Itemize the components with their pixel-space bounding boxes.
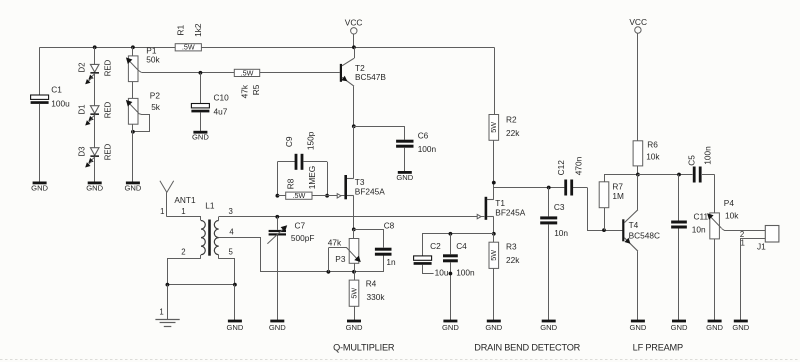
resistor R5 (234, 68, 261, 98)
potentiometer P4 (707, 175, 765, 322)
svg-text:1: 1 (181, 207, 185, 216)
capacitor C4 (443, 234, 467, 321)
ground C11 (672, 320, 686, 323)
ground C2/C4 (443, 320, 457, 323)
wire L1 pin5 (219, 259, 235, 285)
transistor T3 BF245A (337, 175, 385, 199)
wire R8 to T3 gate (312, 195, 344, 197)
wire P2 to ground (132, 124, 134, 183)
capacitor C10 (191, 73, 229, 131)
resistor R4 (349, 272, 385, 321)
capacitor C1 (31, 47, 71, 183)
node junction C11 tap (677, 173, 681, 177)
svg-text:150p: 150p (306, 131, 316, 150)
wire T2 emitter down (353, 86, 355, 126)
ground R3 (487, 320, 501, 323)
node junction LED chain / rail (93, 45, 97, 49)
svg-text:GND: GND (192, 133, 209, 142)
svg-text:L1: L1 (205, 200, 215, 210)
svg-text:GND: GND (442, 323, 459, 332)
svg-text:.5W: .5W (292, 191, 305, 200)
ground P2 (126, 182, 140, 185)
node junction pin2 tie (166, 283, 170, 287)
wire top supply rail right (201, 47, 494, 49)
wire T1 source down (493, 217, 495, 234)
svg-text:R3: R3 (506, 241, 517, 251)
resistor R7 (599, 175, 638, 231)
svg-text:GND: GND (269, 323, 286, 332)
node junction R4 tie (352, 270, 356, 274)
node junction C4 tap (449, 232, 453, 236)
wire T3 source down (353, 196, 355, 230)
svg-text:1MEG: 1MEG (307, 166, 317, 190)
svg-text:100u: 100u (51, 99, 70, 109)
svg-text:4: 4 (229, 227, 234, 236)
svg-text:GND: GND (31, 183, 48, 192)
svg-text:C9: C9 (284, 136, 294, 147)
svg-text:GND: GND (671, 323, 688, 332)
svg-text:C10: C10 (214, 92, 230, 102)
svg-text:GND: GND (732, 323, 749, 332)
svg-text:GND: GND (706, 323, 723, 332)
wire source rail to C2 (423, 234, 494, 256)
capacitor C9 (277, 131, 327, 170)
svg-text:BF245A: BF245A (495, 207, 525, 217)
wire R2 feed down (494, 47, 496, 114)
wire top supply rail left (40, 47, 176, 49)
svg-text:BC548C: BC548C (629, 231, 660, 241)
wire P1 to P2 (132, 82, 134, 99)
wire D1 to D3 (94, 115, 96, 148)
ground C10 (193, 131, 207, 134)
svg-text:C12: C12 (556, 160, 566, 176)
svg-text:C6: C6 (418, 130, 429, 140)
svg-text:R6: R6 (647, 140, 658, 150)
resistor R6 (633, 140, 660, 175)
resistor R3 (489, 234, 520, 321)
svg-text:T4: T4 (629, 220, 639, 230)
svg-text:ANT1: ANT1 (174, 195, 196, 205)
wire J1 pin1 to ground (741, 239, 766, 321)
antenna ANT1 (160, 181, 196, 217)
svg-text:RED: RED (104, 143, 113, 160)
svg-text:P2: P2 (150, 91, 161, 101)
svg-text:RED: RED (104, 59, 113, 76)
svg-text:R7: R7 (612, 181, 623, 191)
svg-text:R5: R5 (251, 84, 261, 95)
wire P1 wiper to R5 (142, 72, 235, 74)
wire pin5 to ground (234, 285, 236, 321)
svg-text:100n: 100n (418, 144, 437, 154)
wire L1 pin4 (219, 238, 384, 272)
wire C12 to T4 base (588, 188, 623, 231)
svg-text:R1: R1 (175, 25, 185, 36)
svg-text:D2: D2 (78, 63, 87, 73)
svg-text:C8: C8 (384, 221, 395, 231)
svg-text:10k: 10k (646, 152, 660, 162)
node junction R8/C9 right (325, 194, 329, 198)
wire rail to D2 (94, 47, 96, 64)
svg-text:C4: C4 (456, 241, 467, 251)
svg-text:R2: R2 (506, 114, 517, 124)
supply VCC (right) (629, 17, 647, 141)
resistor R2 (489, 114, 520, 140)
connector J1 (757, 226, 779, 252)
wire D3 to ground (94, 157, 96, 183)
wire rail to P1 (132, 47, 134, 56)
svg-text:4u7: 4u7 (214, 107, 228, 117)
svg-text:100n: 100n (703, 146, 713, 165)
svg-text:GND: GND (485, 323, 502, 332)
svg-text:1: 1 (159, 308, 163, 317)
svg-text:GND: GND (86, 183, 103, 192)
earth ground symbol (155, 320, 179, 327)
node junction P2 wiper tie (131, 130, 135, 134)
svg-text:C7: C7 (295, 220, 306, 230)
potentiometer P2 (126, 91, 161, 132)
svg-text:.5W: .5W (182, 43, 195, 52)
node junction T2 emitter / C6 / T3 drain (352, 124, 356, 128)
node junction T1 source / R3 (492, 232, 496, 236)
svg-text:D1: D1 (78, 105, 87, 115)
node junction C2/C4 bottom (449, 272, 453, 276)
svg-text:3: 3 (229, 207, 233, 216)
wire detector output rail (494, 187, 565, 189)
svg-text:Q-MULTIPLIER: Q-MULTIPLIER (333, 342, 395, 352)
LED D2 (78, 59, 113, 84)
wire bottom tie pin2-pin5 (167, 284, 235, 286)
svg-text:GND: GND (396, 173, 413, 182)
ground C7 (270, 320, 284, 323)
svg-text:330k: 330k (367, 292, 386, 302)
svg-text:5: 5 (229, 247, 234, 256)
ground P4 (708, 320, 722, 323)
wire R2 to T1 drain (493, 140, 495, 199)
capacitor C2 (414, 241, 451, 274)
svg-text:VCC: VCC (629, 17, 647, 27)
LED D1 (78, 101, 113, 125)
svg-text:470n: 470n (574, 156, 584, 175)
resistor R1 (175, 23, 203, 52)
wire L1 pin3 to T1 gate (219, 216, 485, 218)
svg-text:50k: 50k (146, 55, 160, 65)
node junction T3 source / C8 / P3 (352, 228, 356, 232)
svg-text:GND: GND (346, 323, 363, 332)
ground R4 (347, 320, 361, 323)
svg-text:GND: GND (629, 323, 646, 332)
svg-text:47k: 47k (328, 237, 342, 247)
wire D2 to D1 (94, 73, 96, 106)
svg-text:C2: C2 (430, 241, 441, 251)
svg-text:1M: 1M (612, 191, 624, 201)
wire collector rail to C5 (638, 174, 693, 176)
wire C9 left leg (277, 162, 279, 196)
svg-text:1: 1 (160, 207, 164, 216)
wire antenna to L1 pin1 (167, 216, 201, 218)
wire C9 right leg (327, 162, 329, 196)
svg-text:10n: 10n (554, 228, 568, 238)
svg-text:LF PREAMP: LF PREAMP (633, 342, 683, 352)
svg-text:5k: 5k (151, 102, 161, 112)
svg-text:10u: 10u (435, 267, 449, 277)
transistor T1 BF245A (477, 197, 526, 220)
svg-text:1k2: 1k2 (193, 23, 203, 37)
svg-text:DRAIN BEND DETECTOR: DRAIN BEND DETECTOR (474, 342, 580, 352)
label C4 value (455, 268, 475, 277)
wire P3 bottom (354, 263, 356, 272)
capacitor C5 (687, 146, 715, 183)
wire R5 to T2 base (260, 72, 340, 74)
svg-text:C11: C11 (694, 212, 709, 222)
svg-text:D3: D3 (78, 147, 87, 157)
svg-text:.5W: .5W (241, 68, 254, 77)
ground LED chain (88, 182, 102, 185)
svg-text:C5: C5 (687, 155, 697, 166)
wire T4 emitter to ground (637, 251, 639, 321)
capacitor C6 (354, 126, 437, 171)
svg-text:RED: RED (104, 101, 113, 118)
svg-text:BC547B: BC547B (355, 72, 386, 82)
svg-text:5W: 5W (489, 250, 498, 261)
svg-text:BF245A: BF245A (355, 187, 385, 197)
potentiometer P1 (126, 45, 161, 81)
variable capacitor C7 (267, 217, 314, 321)
svg-text:100n: 100n (456, 267, 475, 277)
wire L1 pin2 (168, 259, 201, 285)
sheet frame dashed edge (0, 359, 800, 361)
wire T2 emitter to T3 drain (353, 126, 355, 178)
node junction R7 / base (602, 228, 606, 232)
node junction R2 / T1 drain (492, 181, 496, 185)
svg-text:R8: R8 (286, 178, 296, 189)
capacitor C12 (556, 156, 587, 195)
svg-text:C3: C3 (554, 202, 565, 212)
node junction R6 / collector (636, 173, 640, 177)
svg-text:10k: 10k (725, 210, 739, 220)
svg-text:GND: GND (540, 323, 557, 332)
svg-text:1: 1 (741, 239, 745, 248)
svg-text:1n: 1n (386, 257, 396, 267)
svg-text:P3: P3 (335, 254, 346, 264)
svg-text:GND: GND (226, 323, 243, 332)
node junction C3 tap (547, 186, 551, 190)
svg-text:P4: P4 (724, 198, 735, 208)
svg-text:22k: 22k (506, 128, 520, 138)
node junction P1 / rail (131, 45, 135, 49)
ground J1 (734, 320, 748, 323)
node junction R8/C9 left (276, 194, 280, 198)
ground C1 (33, 182, 47, 185)
node junction C7 / tuned circuit (275, 215, 279, 219)
svg-text:5W: 5W (349, 288, 358, 299)
svg-text:GND: GND (124, 183, 141, 192)
inductor L1 transformer (201, 200, 219, 258)
ground C6 (398, 171, 412, 174)
supply VCC (left) (345, 17, 363, 47)
svg-text:22k: 22k (506, 255, 520, 265)
ground L1 pin5 (228, 320, 242, 323)
svg-text:500pF: 500pF (291, 233, 315, 243)
ground C3 (542, 320, 556, 323)
ground T4 (631, 320, 645, 323)
node junction pin5 tie (233, 283, 237, 287)
transistor T4 BC548C (622, 175, 660, 252)
capacitor C3 (540, 188, 568, 322)
transistor T2 BC547B (340, 47, 387, 86)
LED D3 (78, 143, 113, 167)
svg-text:R4: R4 (366, 278, 377, 288)
node junction VCC rail (352, 45, 356, 49)
potentiometer P3 (328, 229, 361, 271)
svg-text:5W: 5W (489, 122, 498, 133)
svg-text:2: 2 (181, 247, 185, 256)
svg-text:C1: C1 (51, 84, 62, 94)
svg-text:10n: 10n (692, 224, 706, 234)
capacitor C11 (671, 175, 708, 322)
svg-text:VCC: VCC (345, 17, 363, 27)
wire to earth (167, 285, 169, 320)
resistor R8 (277, 166, 317, 200)
capacitor C8 (354, 221, 397, 267)
label C2 value (434, 268, 450, 277)
node junction C10 tap (199, 71, 203, 75)
svg-text:J1: J1 (757, 242, 766, 252)
node junction P3 wiper tie (327, 270, 331, 274)
svg-text:47k: 47k (240, 84, 250, 98)
